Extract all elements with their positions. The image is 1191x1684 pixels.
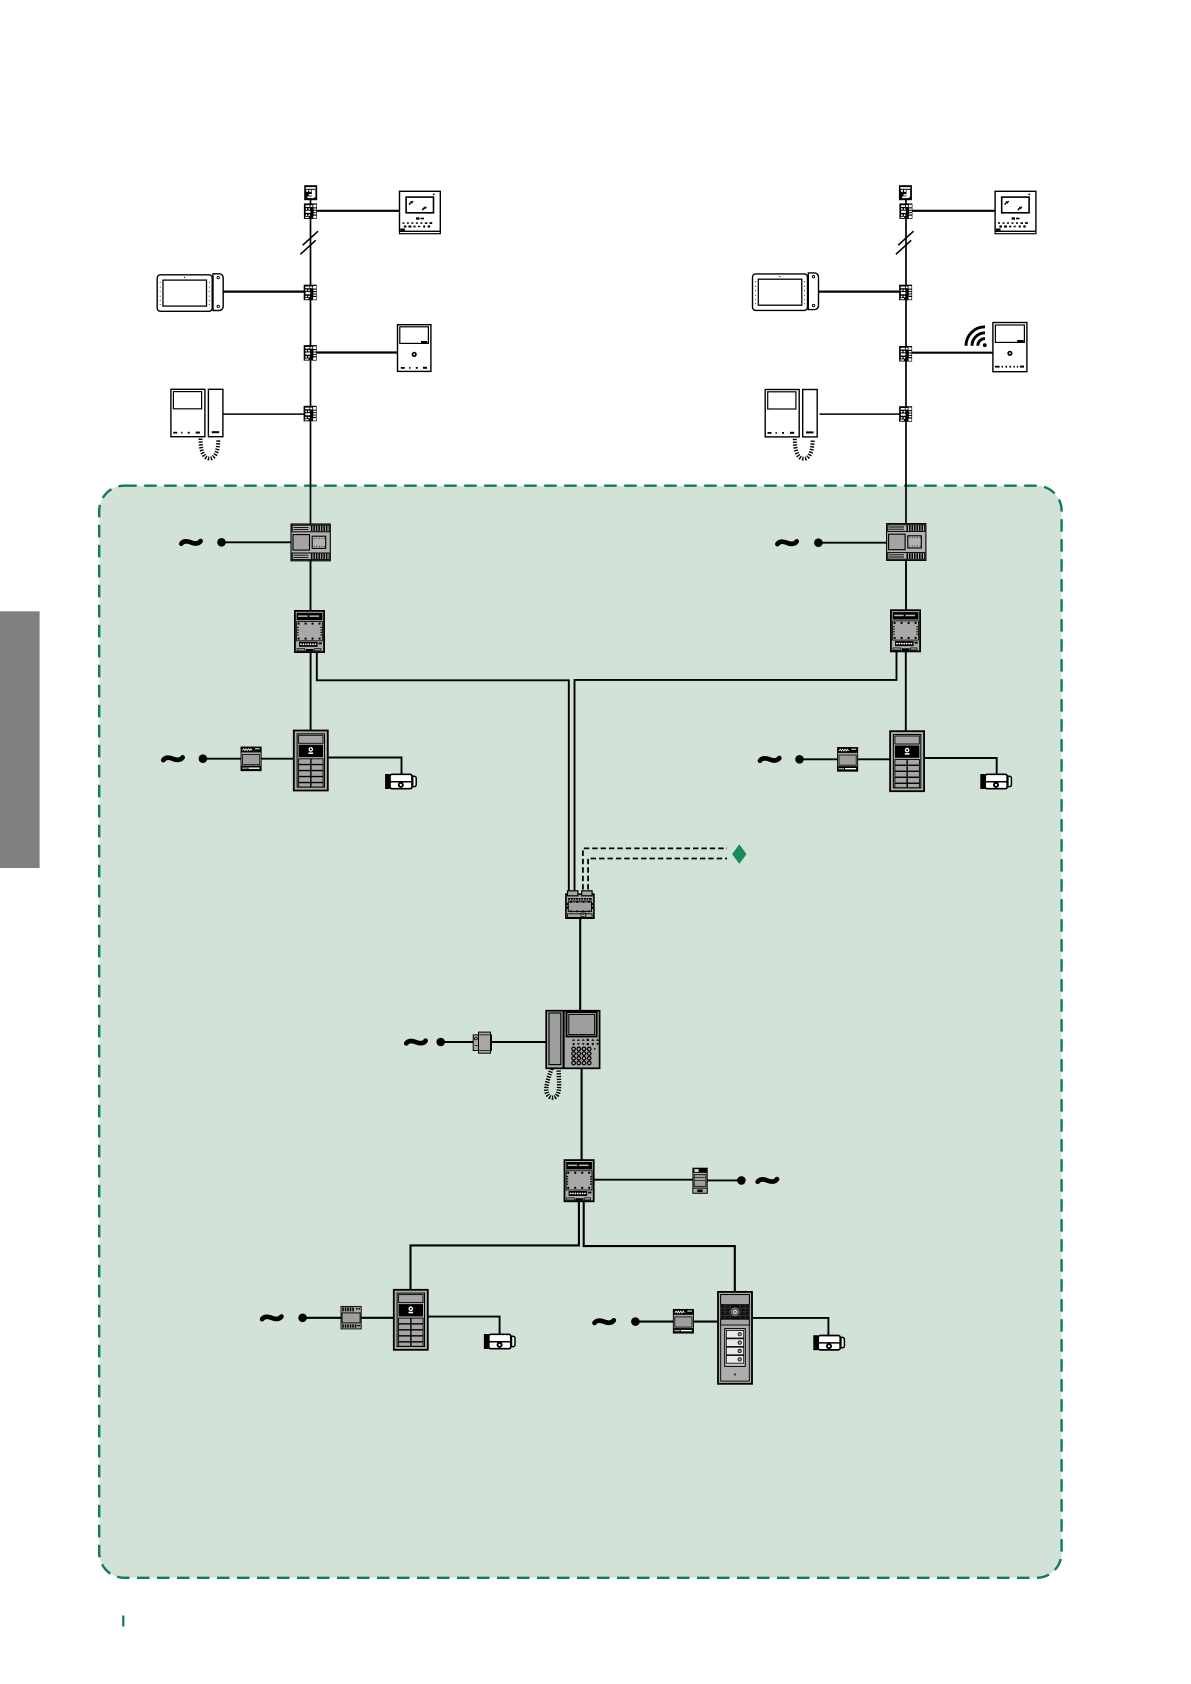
ac tilde right door bbox=[760, 758, 779, 761]
floor distributor 2 left riser bbox=[304, 285, 317, 301]
wire: right door psu to station bbox=[803, 758, 890, 760]
wire: left interface down to door station bbox=[310, 652, 312, 731]
wire: right monitor 7in to distributor 2 bbox=[818, 291, 900, 293]
wire: right interface down to door station bbox=[905, 652, 907, 732]
phone cord right bbox=[795, 439, 813, 459]
wire: psu to supply dot lower bbox=[707, 1179, 738, 1181]
supply dot right door bbox=[795, 755, 804, 764]
camera upper left bbox=[385, 774, 416, 789]
camera upper right bbox=[980, 774, 1011, 789]
page footer tick bbox=[122, 1616, 124, 1627]
wire: left psu to interface bbox=[310, 560, 312, 611]
audio door phone right riser bbox=[765, 390, 817, 437]
console cord bbox=[546, 1069, 559, 1098]
dashed link to concierge exchanger 2 bbox=[588, 859, 727, 890]
continuation diamond bbox=[732, 844, 746, 864]
floor distributor 4 right riser bbox=[899, 406, 912, 422]
wire: right distributor 3 to wifi monitor bbox=[912, 352, 994, 354]
psu lower right door station bbox=[673, 1309, 693, 1333]
wire: lower right psu to station bbox=[639, 1321, 718, 1323]
floor distributor 3 left riser bbox=[304, 345, 317, 361]
relay module top right riser bbox=[899, 185, 912, 200]
7in video monitor left riser bbox=[157, 274, 223, 312]
video monitor flush left riser bbox=[400, 191, 441, 233]
wire: left distributor 3 to monitor bbox=[316, 351, 398, 353]
entrance door station upper right bbox=[890, 731, 924, 791]
ac tilde right psu bbox=[777, 541, 796, 544]
wire: lower left station to camera bbox=[428, 1317, 500, 1335]
supply dot left door bbox=[199, 754, 208, 763]
supply dot lower right door bbox=[631, 1317, 640, 1326]
concierge console bbox=[546, 1011, 599, 1069]
wire: left phone to distributor 4 bbox=[223, 413, 305, 415]
dashed link to concierge exchanger 1 bbox=[583, 848, 727, 889]
wire: junction to concierge console bbox=[579, 919, 581, 1011]
wire: left door psu to station bbox=[206, 758, 294, 760]
wire: left riser break slashes bbox=[300, 231, 318, 254]
wire: left riser vertical bbox=[310, 200, 312, 524]
wire: lower right station to camera bbox=[752, 1318, 828, 1336]
wire: left door station to camera bbox=[328, 758, 402, 775]
video monitor flush right riser bbox=[995, 191, 1036, 233]
supply dot left psu bbox=[217, 538, 226, 547]
supply dot right psu bbox=[814, 538, 823, 547]
wire: left monitor 7in to distributor 2 bbox=[222, 291, 304, 293]
wire: left psu feed bbox=[226, 541, 292, 543]
entrance door station lower right tall bbox=[718, 1292, 752, 1384]
wire: right psu feed bbox=[823, 542, 887, 544]
riser interface module left bbox=[295, 611, 324, 652]
wire: lower left psu to station bbox=[306, 1317, 394, 1319]
ac tilde lower right door bbox=[595, 1320, 614, 1323]
wire: lower module to right door station bbox=[584, 1201, 735, 1292]
ac tilde left psu bbox=[181, 541, 200, 544]
phone cord left bbox=[201, 439, 219, 459]
apartment-block zone (green dashed area) bbox=[99, 486, 1061, 1578]
camera lower right bbox=[813, 1335, 844, 1350]
wire: console psu feed bbox=[445, 1041, 474, 1043]
floor distributor 2 right riser bbox=[899, 285, 912, 301]
relay module top left riser bbox=[304, 185, 317, 200]
wire: right door station to camera bbox=[924, 758, 996, 775]
wire: left distributor 1 to monitor bbox=[317, 210, 400, 212]
wire: lower module to left door station bbox=[411, 1201, 579, 1290]
wire: console to lower module bbox=[581, 1068, 583, 1161]
trunk junction module bbox=[566, 891, 594, 918]
power supply unit right bbox=[887, 524, 926, 561]
section sidebar tab bbox=[0, 611, 40, 868]
wifi waves bbox=[966, 327, 985, 346]
power supply unit left bbox=[291, 524, 330, 561]
supply dot console bbox=[436, 1038, 445, 1047]
psu console bbox=[473, 1032, 491, 1053]
psu lower module bbox=[693, 1168, 707, 1193]
floor distributor 1 right riser bbox=[899, 203, 912, 219]
wire: right riser vertical bbox=[905, 200, 907, 523]
wire: right riser break slashes bbox=[896, 231, 914, 254]
psu lower left door station bbox=[341, 1306, 361, 1329]
ac tilde console bbox=[406, 1041, 425, 1044]
riser interface module right bbox=[891, 610, 920, 651]
ac tilde lower left door bbox=[262, 1317, 281, 1320]
camera lower left bbox=[484, 1334, 515, 1349]
wire: right phone to distributor 4 bbox=[820, 413, 900, 415]
7in video monitor right riser bbox=[753, 273, 819, 311]
wire: left interface branch to center trunk bbox=[317, 652, 569, 891]
floor distributor 1 left riser bbox=[304, 203, 317, 219]
wire: right interface branch to center trunk bbox=[575, 652, 897, 891]
ac tilde lower module bbox=[758, 1179, 777, 1182]
floor distributor 4 left riser bbox=[304, 406, 317, 422]
wire: lower module to psu right bbox=[594, 1179, 694, 1181]
wifi monitor right riser bbox=[993, 323, 1027, 372]
entrance door station upper left bbox=[294, 731, 328, 791]
video monitor left riser bbox=[398, 325, 431, 372]
audio door phone left riser bbox=[171, 389, 223, 436]
entrance door station lower left bbox=[394, 1290, 428, 1350]
supply dot lower module bbox=[737, 1176, 746, 1185]
lower distribution module bbox=[565, 1160, 594, 1201]
psu right door station bbox=[838, 748, 858, 772]
psu left door station bbox=[241, 747, 261, 771]
ac tilde left door bbox=[163, 757, 182, 760]
floor distributor 3 right riser bbox=[899, 346, 912, 362]
wire: console psu to console bbox=[491, 1041, 546, 1043]
wire: right distributor 1 to monitor bbox=[912, 210, 995, 212]
supply dot lower left door bbox=[298, 1314, 307, 1323]
wire: right psu to interface bbox=[905, 560, 907, 610]
